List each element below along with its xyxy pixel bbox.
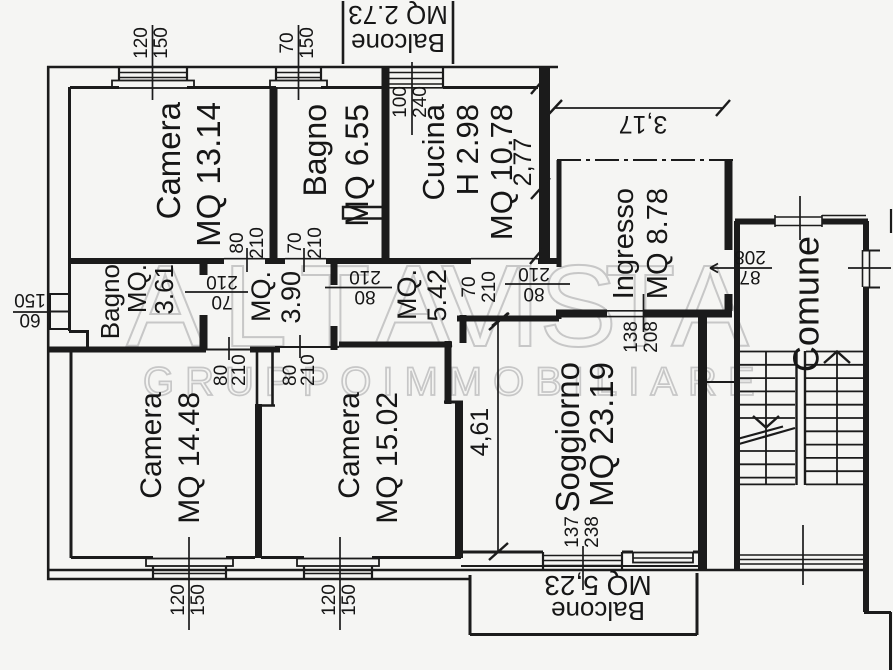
balcone top left wall bbox=[342, 1, 345, 64]
tick 80/210 camera14 door bbox=[228, 337, 230, 360]
window/door 100/240 (Cucina to Balcone) bbox=[384, 67, 443, 88]
staircase walking line right bbox=[836, 351, 838, 484]
tick 4,61 bottom bbox=[489, 543, 508, 560]
bottom wall line 2 bbox=[47, 578, 470, 581]
wall between Camere upper double line bbox=[257, 348, 275, 406]
svg-text:MQ.5.42: MQ.5.42 bbox=[392, 269, 452, 322]
dim line 120/150 top bbox=[152, 25, 154, 100]
svg-text:100240: 100240 bbox=[390, 86, 431, 118]
svg-text:MQ.3.90: MQ.3.90 bbox=[246, 271, 306, 324]
staircase arrow up right flight bbox=[824, 352, 850, 364]
tick 4,61 top bbox=[489, 313, 508, 330]
svg-text:70210: 70210 bbox=[285, 227, 326, 259]
strip top wall door threshold lines bbox=[224, 258, 538, 260]
Soggiorno right wall bbox=[698, 310, 707, 570]
dim line 3,17 bbox=[554, 107, 724, 109]
Comune door threshold bbox=[775, 215, 822, 227]
wall jog bbox=[444, 401, 463, 404]
balcone top right wall bbox=[452, 1, 455, 64]
dim line 70/150 top bbox=[298, 25, 300, 100]
dim line comune door bbox=[799, 196, 801, 240]
bar 60/150 bbox=[13, 311, 48, 313]
wall corridor3.90/corridor5.42 bbox=[331, 261, 338, 350]
tick 80/210 corridor right bbox=[505, 283, 570, 285]
dim line stair window bbox=[802, 525, 804, 585]
svg-text:4,61: 4,61 bbox=[466, 408, 494, 457]
tick 2,77 top bbox=[531, 73, 549, 94]
wall between Camere lower bbox=[255, 404, 262, 558]
wire: outer left wall bbox=[47, 66, 50, 580]
Comune right wall bbox=[863, 221, 869, 612]
corridor strip bottom wall left bbox=[47, 347, 280, 353]
svg-text:CameraMQ 15.02: CameraMQ 15.02 bbox=[333, 392, 404, 524]
shaft step line bbox=[707, 381, 734, 383]
wall Bagno3.61/corridor3.90 bbox=[200, 261, 208, 350]
dash-dot property line above Ingresso bbox=[557, 159, 734, 161]
niche in Bagno 6.55 bbox=[343, 207, 383, 219]
window 120/150 bottom left (Camera 14.48) bbox=[146, 559, 233, 580]
french door 137/238 (Soggiorno to Balcone) bbox=[543, 552, 622, 570]
Comune top wall bbox=[735, 219, 868, 225]
notch Bagno 3.61 bottom-left bbox=[69, 330, 88, 350]
wall Bagno6.55/Cucina bbox=[382, 67, 390, 261]
svg-text:60150: 60150 bbox=[14, 290, 46, 331]
svg-text:138208: 138208 bbox=[621, 321, 662, 353]
window 70/150 top (Bagno 6.55) bbox=[270, 67, 327, 88]
door threshold Camera 14.48 bbox=[206, 349, 250, 351]
tick 80/210 camera15 door bbox=[299, 335, 301, 358]
svg-text:70210: 70210 bbox=[206, 272, 238, 313]
door threshold Camera 15.02 bbox=[275, 346, 339, 348]
staircase treads right flight bbox=[806, 352, 866, 485]
tick 2,77 bottom bbox=[531, 178, 550, 199]
tick 3,17 left bbox=[548, 100, 562, 115]
staircase bottom window bbox=[740, 555, 863, 564]
Soggiorno top-left wall bbox=[457, 316, 559, 322]
balcone bottom box bbox=[470, 573, 697, 635]
svg-text:BagnoMQ 6.55: BagnoMQ 6.55 bbox=[297, 104, 375, 227]
svg-text:120150: 120150 bbox=[131, 27, 172, 59]
dim line comune window bbox=[848, 267, 891, 269]
door threshold 138/208 bbox=[605, 311, 645, 317]
svg-text:BalconeMQ 2.73: BalconeMQ 2.73 bbox=[348, 0, 448, 58]
arrow 87/208 bbox=[710, 264, 772, 273]
svg-text:70150: 70150 bbox=[277, 27, 318, 59]
svg-text:CameraMQ 14.48: CameraMQ 14.48 bbox=[135, 392, 206, 524]
svg-text:120150: 120150 bbox=[319, 584, 360, 616]
tick 80/210 top strip bbox=[246, 248, 248, 272]
Comune left wall bbox=[734, 221, 740, 570]
window 120/150 bottom right (Camera 15.02) bbox=[297, 559, 379, 580]
dim line 100/240 bbox=[411, 62, 413, 135]
wall Cucina right bbox=[539, 67, 550, 261]
bottom right step wall bbox=[864, 612, 891, 670]
bottom wall soggiorno inner band bbox=[461, 565, 702, 567]
dim line 120/150 bottom left bbox=[188, 537, 190, 630]
svg-text:137238: 137238 bbox=[562, 516, 603, 548]
staircase break line bbox=[739, 427, 795, 445]
bottom wall line 1 bbox=[47, 569, 868, 572]
svg-text:BalconeMQ 5,23: BalconeMQ 5,23 bbox=[544, 571, 651, 627]
staircase divider double line bbox=[797, 351, 806, 485]
tick 70/210 bagno3.61 door bbox=[185, 291, 248, 293]
tick cucina door bbox=[530, 245, 546, 264]
dim line 137/238 bbox=[582, 546, 584, 590]
wire: outer top wall bbox=[47, 66, 558, 69]
Soggiorno top-left stub bbox=[460, 315, 467, 343]
svg-text:120150: 120150 bbox=[168, 584, 209, 616]
Camera bottoms inner edge bbox=[71, 556, 461, 559]
staircase treads left flight bbox=[739, 352, 795, 485]
tick soggiorno corner bbox=[492, 313, 509, 326]
Camera 15.02 top wall bbox=[339, 342, 452, 348]
wall Camera15.02/Soggiorno upper bbox=[445, 341, 452, 404]
staircase walking line left bbox=[765, 351, 767, 484]
Comune top thin line bbox=[822, 215, 866, 217]
wall Camera15.02/Soggiorno lower bbox=[455, 401, 463, 558]
svg-text:Comune: Comune bbox=[786, 236, 827, 372]
svg-text:3,17: 3,17 bbox=[619, 110, 668, 138]
dim line 120/150 bottom right bbox=[339, 537, 341, 630]
wire: inner top edges of Camera 13.14 / Bagno 6.55 / Cucina bbox=[70, 86, 538, 89]
svg-text:SoggiornoMQ 23.19: SoggiornoMQ 23.19 bbox=[549, 362, 620, 512]
svg-text:80210: 80210 bbox=[227, 227, 268, 259]
right edge stub bbox=[890, 209, 892, 233]
tick 3,17 right bbox=[716, 100, 730, 116]
svg-text:2,77: 2,77 bbox=[509, 138, 537, 187]
Soggiorno bottom inner edge bbox=[461, 551, 700, 554]
window 120/150 top (Camera 13.14) bbox=[112, 67, 194, 88]
tick 80/210 corridor wall bbox=[325, 287, 392, 289]
staircase arrow down left flight bbox=[753, 416, 779, 428]
window Soggiorno bottom right bbox=[633, 553, 693, 563]
dim line 138/208 door bbox=[643, 294, 645, 332]
wall Camera13.14/Bagno6.55 bbox=[270, 87, 278, 261]
corridor strip top wall bbox=[69, 258, 558, 264]
svg-text:CucinaH 2.98MQ 10.78: CucinaH 2.98MQ 10.78 bbox=[416, 103, 519, 240]
tick 70/210 top strip bbox=[303, 248, 305, 272]
Ingresso/Soggiorno wall bbox=[556, 310, 732, 318]
window 60/150 left wall bbox=[50, 294, 69, 329]
dim line 4,61 bbox=[497, 316, 499, 552]
Ingresso left wall bbox=[557, 160, 562, 319]
Ingresso right wall bbox=[725, 160, 733, 311]
Comune right window bbox=[863, 250, 870, 287]
svg-text:CameraMQ 13.14: CameraMQ 13.14 bbox=[150, 101, 227, 247]
wire: inner left edge bbox=[70, 87, 72, 558]
